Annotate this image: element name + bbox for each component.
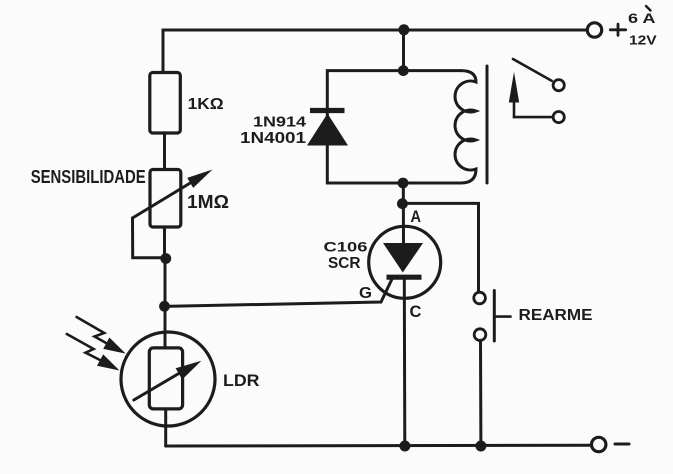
svg-text:6 A: 6 A: [628, 11, 656, 26]
svg-text:C: C: [410, 303, 422, 321]
svg-text:C106: C106: [324, 238, 368, 254]
SCR triangle: [383, 243, 423, 273]
relay contact actuation arrow: [513, 103, 516, 117]
SCR cathode bar: [387, 275, 422, 280]
wire diode/relay loop: [327, 71, 461, 183]
svg-text:G: G: [359, 285, 372, 302]
terminal - (negative supply): [592, 437, 606, 451]
wire wiper node to gate node: [164, 259, 167, 307]
potentiometer P1 1MΩ body: [150, 170, 181, 228]
relay contact terminal lower: [553, 112, 564, 123]
svg-text:1N914: 1N914: [253, 115, 306, 131]
LDR resistor rect: [149, 348, 182, 409]
svg-text:SCR: SCR: [328, 255, 361, 272]
node A branch junction: [397, 198, 408, 209]
wire bottom rail: [166, 444, 592, 448]
node bottom rail of relay loop: [398, 178, 409, 189]
minus sign: [615, 443, 629, 446]
pushbutton tick: [494, 315, 510, 318]
relay core bar: [486, 66, 489, 183]
wire R1 to potentiometer: [163, 133, 166, 170]
node pushbutton at bottom rail: [475, 441, 486, 452]
node diode/relay loop top rail: [398, 65, 409, 76]
accent grave over A: [646, 6, 651, 11]
LDR variability arrow: [134, 371, 183, 400]
potentiometer wiper arrow: [133, 180, 197, 219]
pushbutton S1 bottom contact: [474, 329, 486, 341]
svg-text:1N4001: 1N4001: [240, 130, 306, 147]
svg-text:1KΩ: 1KΩ: [188, 96, 224, 113]
relay contact terminal upper: [553, 80, 564, 91]
wire gate node down to LDR: [164, 306, 167, 348]
pushbutton S1 top contact: [474, 292, 486, 304]
svg-text:12V: 12V: [629, 33, 657, 48]
wire pushbutton to bottom rail: [479, 340, 482, 446]
light arrow 1: [77, 317, 107, 344]
wire LDR to bottom rail: [164, 409, 167, 446]
wire contact arm to lower terminal: [514, 116, 552, 119]
node gate junction: [159, 301, 170, 312]
svg-text:SENSIBILIDADE: SENSIBILIDADE: [31, 167, 146, 187]
relay contact arm: [513, 59, 552, 81]
pushbutton plate: [493, 291, 496, 342]
svg-text:REARME: REARME: [519, 307, 593, 324]
wire relay loop to SCR anode: [402, 183, 405, 245]
wire relay branch vertical: [402, 30, 405, 71]
wire gate junction to SCR gate: [165, 279, 393, 306]
terminal + (positive supply): [587, 23, 601, 37]
svg-text:LDR: LDR: [223, 371, 260, 390]
svg-text:1MΩ: 1MΩ: [187, 191, 229, 212]
diode D1 triangle: [307, 114, 348, 146]
SCR U1 C106 body circle: [369, 226, 441, 298]
wire top rail: [163, 30, 588, 73]
diode D1 1N914/1N4001 cathode bar: [310, 108, 345, 113]
node wiper junction: [160, 253, 171, 264]
relay coil K1: [403, 71, 476, 183]
node SCR cathode at bottom rail: [399, 441, 410, 452]
wire pot bottom to wiper node: [163, 227, 166, 258]
svg-text:A: A: [411, 207, 422, 226]
light arrow 2: [67, 334, 101, 361]
LDR photoresistor body circle: [121, 332, 215, 426]
wire node A to pushbutton: [403, 203, 479, 292]
plus sign: [610, 28, 625, 31]
wire SCR cathode down to bottom rail: [403, 280, 407, 447]
resistor R1 1KΩ body: [150, 73, 181, 134]
wire wiper loop: [133, 218, 167, 258]
node junction top rail to relay branch: [398, 24, 409, 35]
